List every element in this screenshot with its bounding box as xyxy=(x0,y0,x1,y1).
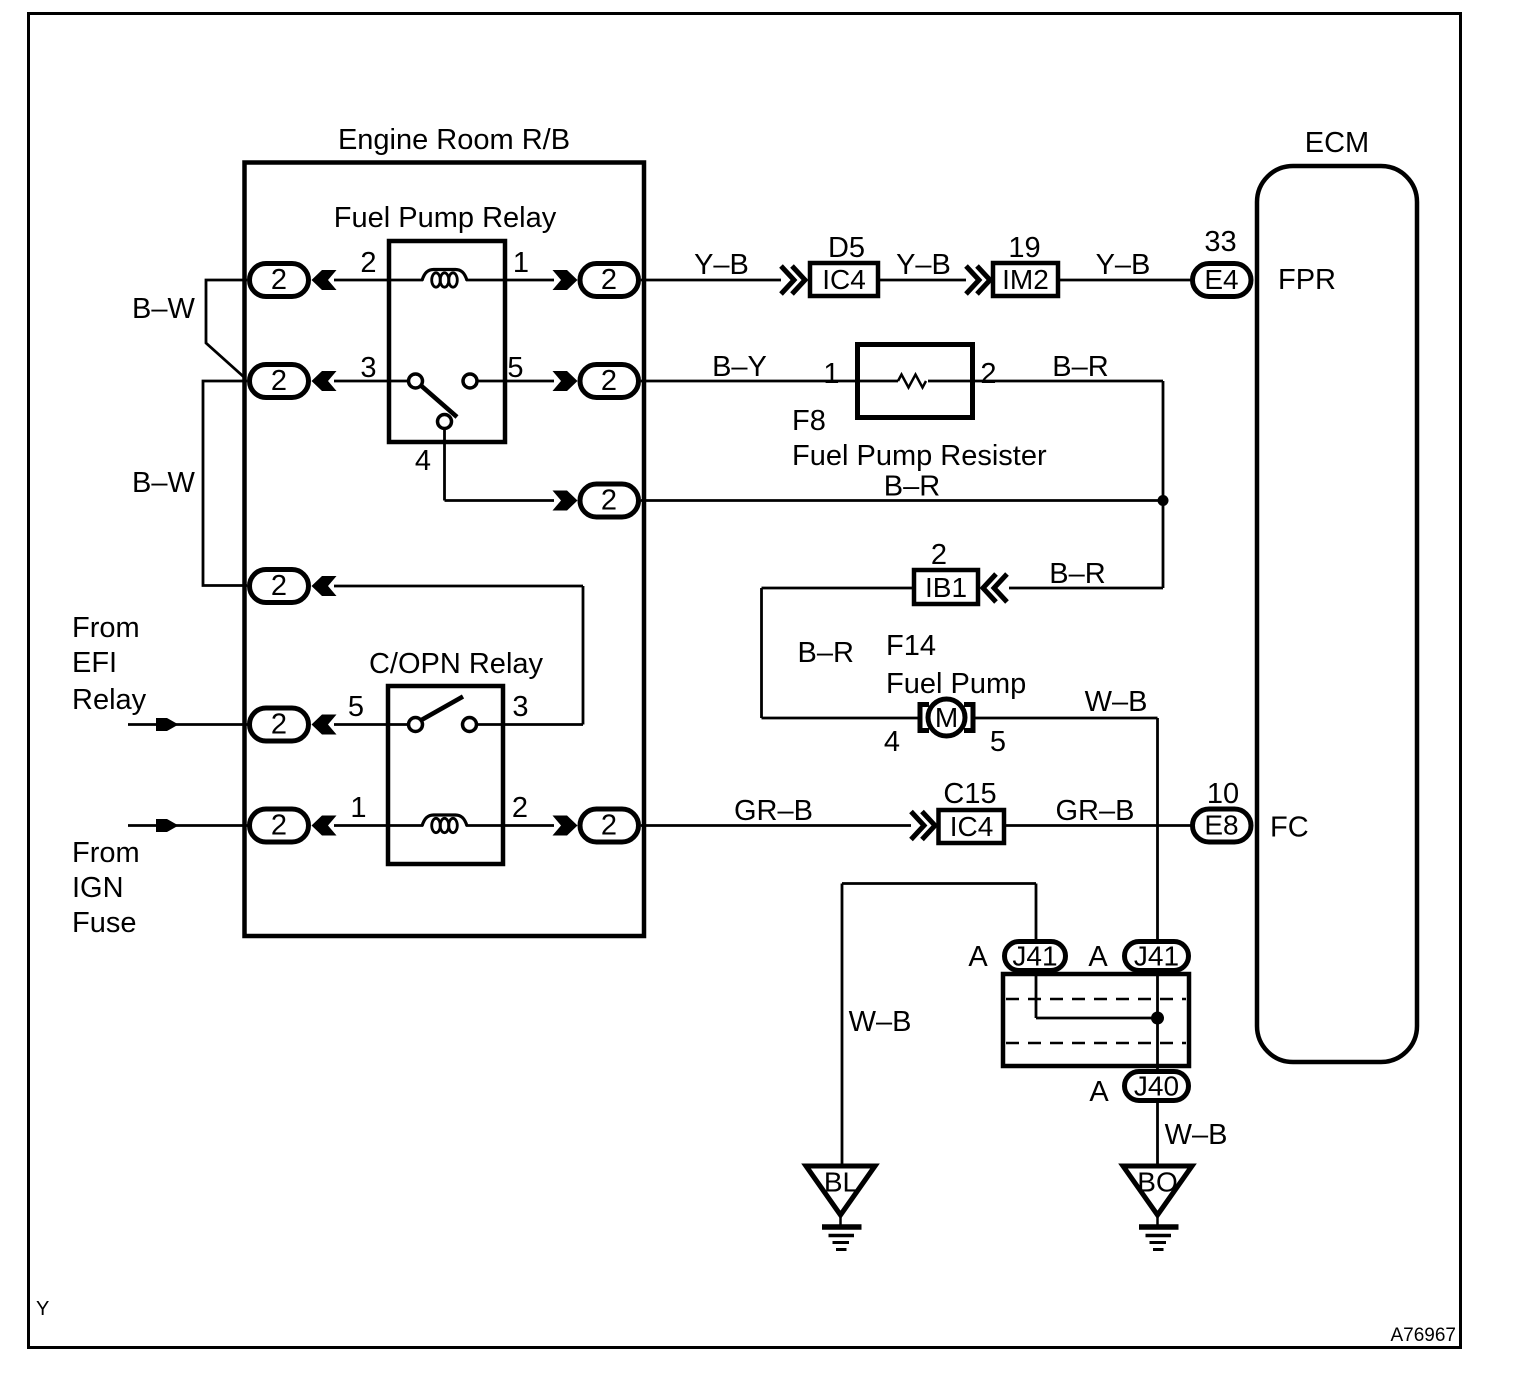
svg-text:J40: J40 xyxy=(1134,1071,1179,1102)
svg-text:J41: J41 xyxy=(1134,941,1179,972)
resistor F8 Fuel Pump Resister xyxy=(792,345,1047,473)
svg-text:IC4: IC4 xyxy=(950,811,994,842)
svg-text:A76967: A76967 xyxy=(1390,1325,1456,1346)
wire GR-B (relay to C15) xyxy=(641,795,911,827)
wire W-B (pump to J41) xyxy=(974,686,1158,941)
svg-text:33: 33 xyxy=(1204,226,1236,258)
svg-text:5: 5 xyxy=(348,691,364,723)
svg-text:2: 2 xyxy=(980,358,996,390)
svg-text:IGN: IGN xyxy=(72,872,124,904)
connector J41 (right) xyxy=(1088,941,1188,974)
connector 2 (row2 right) xyxy=(553,365,639,398)
svg-text:2: 2 xyxy=(601,485,617,517)
svg-text:2: 2 xyxy=(271,365,287,397)
wire Y-B (D5 to IM2) xyxy=(880,249,966,281)
wire B-W jog bottom xyxy=(132,381,247,586)
svg-text:EFI: EFI xyxy=(72,647,117,679)
ground BL xyxy=(806,1166,875,1250)
wire GR-B (C15 to E8) xyxy=(1006,795,1192,827)
junction block J41/J40 xyxy=(1003,974,1189,1066)
svg-text:BO: BO xyxy=(1137,1167,1177,1198)
wire B-R (junction to IB1) xyxy=(1009,558,1163,590)
svg-text:2: 2 xyxy=(931,539,947,571)
svg-text:E4: E4 xyxy=(1204,264,1238,295)
svg-text:4: 4 xyxy=(884,726,900,758)
svg-text:W–B: W–B xyxy=(1165,1119,1228,1151)
relay switch contacts (Fuel Pump Relay) xyxy=(409,374,478,429)
wire row1 xyxy=(334,279,781,282)
junction block Engine Room R/B xyxy=(245,124,645,936)
svg-text:Y–B: Y–B xyxy=(1096,249,1151,281)
svg-text:Fuel Pump: Fuel Pump xyxy=(886,668,1026,700)
svg-text:GR–B: GR–B xyxy=(734,795,813,827)
svg-text:Engine Room R/B: Engine Room R/B xyxy=(338,124,570,156)
connector 2 (row5 right) xyxy=(553,809,639,842)
svg-text:2: 2 xyxy=(512,792,528,824)
relay Fuel Pump Relay xyxy=(334,202,557,442)
svg-text:C/OPN Relay: C/OPN Relay xyxy=(369,648,544,680)
svg-text:FC: FC xyxy=(1270,812,1309,844)
connector 2 (row5 left) xyxy=(250,809,337,842)
splice 19 IM2 xyxy=(966,232,1058,296)
svg-text:ECM: ECM xyxy=(1305,127,1369,159)
svg-text:B–R: B–R xyxy=(1052,351,1108,383)
splice D5 IC4 xyxy=(781,232,878,296)
svg-text:B–R: B–R xyxy=(798,637,854,669)
svg-text:Relay: Relay xyxy=(72,684,147,716)
wire inside junction block xyxy=(1036,971,1158,1071)
svg-text:A: A xyxy=(1089,1076,1109,1108)
splice C15 IC4 xyxy=(911,778,1004,843)
svg-text:B–W: B–W xyxy=(132,293,195,325)
wire B-R (IB1 to fuel pump) xyxy=(762,588,920,718)
svg-text:D5: D5 xyxy=(828,232,865,264)
svg-text:A: A xyxy=(1088,941,1108,973)
svg-text:1: 1 xyxy=(350,792,366,824)
connector J41 (left) xyxy=(968,941,1065,974)
wire B-R (F8 to junction) xyxy=(975,351,1163,588)
svg-text:F14: F14 xyxy=(886,630,936,662)
wire ground branch (to BL and J41) xyxy=(842,884,1036,1167)
wire row3 to C/OPN pin3 xyxy=(334,586,583,725)
wire row4 pin5 inside xyxy=(477,723,505,726)
wire row5 xyxy=(334,824,554,827)
wire B-W jog top xyxy=(132,280,247,378)
svg-text:2: 2 xyxy=(601,365,617,397)
svg-text:10: 10 xyxy=(1207,778,1239,810)
svg-text:Fuel Pump Resister: Fuel Pump Resister xyxy=(792,440,1047,472)
wire From IGN Fuse xyxy=(72,819,249,939)
svg-text:B–R: B–R xyxy=(884,471,940,503)
connector 2 (row3 left) xyxy=(250,570,337,603)
svg-text:W–B: W–B xyxy=(1085,686,1148,718)
connector 2 (row4 left) xyxy=(250,708,337,741)
svg-text:1: 1 xyxy=(513,247,529,279)
svg-text:2: 2 xyxy=(271,570,287,602)
svg-text:M: M xyxy=(935,702,958,733)
relay switch contacts (C/OPN Relay) xyxy=(409,697,477,732)
wire row4 switch side xyxy=(334,723,409,726)
svg-text:E8: E8 xyxy=(1204,810,1238,841)
svg-text:19: 19 xyxy=(1008,232,1040,264)
svg-text:2: 2 xyxy=(601,810,617,842)
svg-text:2: 2 xyxy=(271,810,287,842)
svg-text:FPR: FPR xyxy=(1278,264,1336,296)
connector 2 (row1 left) xyxy=(250,264,337,297)
svg-text:2: 2 xyxy=(360,247,376,279)
wire W-B (J40 to BO) xyxy=(1158,1101,1228,1167)
connector E4 pin 33 xyxy=(1193,226,1252,297)
wire B-R row2.5 xyxy=(641,471,1163,503)
svg-text:Y–B: Y–B xyxy=(694,249,749,281)
svg-text:From: From xyxy=(72,612,140,644)
wire pin4 to row2.5 connector xyxy=(445,429,555,501)
connector 2 (row2.5 right) xyxy=(553,484,639,517)
svg-text:B–W: B–W xyxy=(132,467,195,499)
svg-text:From: From xyxy=(72,837,140,869)
svg-text:F8: F8 xyxy=(792,405,826,437)
splice IB1 xyxy=(914,570,1007,604)
svg-text:2: 2 xyxy=(601,264,617,296)
relay coil (C/OPN Relay) xyxy=(422,815,467,833)
svg-text:3: 3 xyxy=(360,352,376,384)
svg-text:W–B: W–B xyxy=(849,1006,912,1038)
svg-text:Fuse: Fuse xyxy=(72,907,136,939)
ECM module xyxy=(1257,127,1417,1062)
connector E8 pin 10 xyxy=(1193,778,1252,842)
svg-text:BL: BL xyxy=(824,1167,858,1198)
svg-text:Y: Y xyxy=(36,1298,49,1320)
svg-text:4: 4 xyxy=(415,445,431,477)
svg-text:Fuel Pump Relay: Fuel Pump Relay xyxy=(334,202,557,234)
svg-text:5: 5 xyxy=(990,726,1006,758)
svg-text:IM2: IM2 xyxy=(1002,264,1049,295)
svg-text:1: 1 xyxy=(823,358,839,390)
svg-text:IC4: IC4 xyxy=(822,264,866,295)
connector 2 (row1 right) xyxy=(553,264,639,297)
svg-text:3: 3 xyxy=(512,691,528,723)
motor F14 Fuel Pump xyxy=(886,630,1026,736)
svg-text:A: A xyxy=(968,941,988,973)
relay C/OPN Relay xyxy=(369,648,544,864)
svg-text:B–R: B–R xyxy=(1049,558,1105,590)
ground BO xyxy=(1123,1166,1192,1250)
svg-text:GR–B: GR–B xyxy=(1056,795,1135,827)
node junction B-R xyxy=(1158,495,1169,506)
wire row2 xyxy=(334,380,857,383)
node junction dot (block) xyxy=(1151,1012,1164,1025)
svg-text:C15: C15 xyxy=(943,778,996,810)
wire From EFI Relay xyxy=(72,612,249,731)
connector J40 xyxy=(1089,1071,1188,1109)
svg-text:2: 2 xyxy=(271,709,287,741)
svg-text:J41: J41 xyxy=(1012,941,1057,972)
svg-text:Y–B: Y–B xyxy=(896,249,951,281)
svg-text:5: 5 xyxy=(507,352,523,384)
relay coil (Fuel Pump Relay) xyxy=(422,270,467,288)
svg-text:2: 2 xyxy=(271,264,287,296)
svg-text:IB1: IB1 xyxy=(925,572,967,603)
svg-text:B–Y: B–Y xyxy=(712,351,767,383)
wire Y-B (IM2 to E4) xyxy=(1060,249,1192,281)
connector 2 (row2 left) xyxy=(250,365,337,398)
